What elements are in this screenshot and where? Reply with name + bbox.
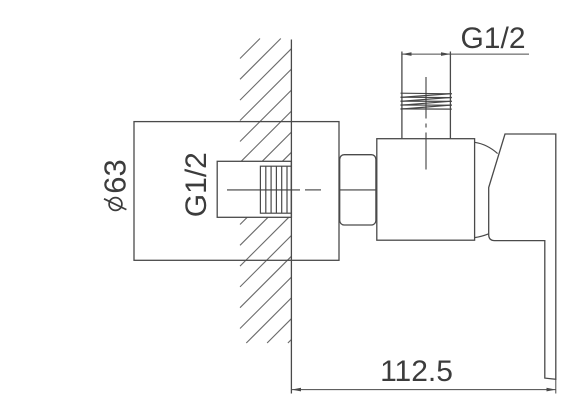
handle lever	[489, 134, 556, 379]
svg-text:G1/2: G1/2	[180, 152, 213, 217]
threaded box	[260, 166, 291, 213]
cartridge arc top	[475, 142, 498, 153]
svg-text:G1/2: G1/2	[460, 22, 525, 55]
cartridge arc bottom	[475, 234, 489, 238]
label o63 rotated	[98, 159, 133, 193]
valve body	[377, 139, 475, 241]
compression nut	[340, 155, 376, 225]
pipe threads	[401, 93, 452, 109]
label G1/2 rotated	[180, 152, 213, 217]
top pipe	[402, 52, 451, 139]
inlet tube G1/2	[217, 161, 291, 217]
dimension G1/2 top	[401, 53, 529, 55]
wall hatch section	[240, 39, 291, 344]
svg-text:112.5: 112.5	[380, 355, 453, 388]
horizontal center line	[227, 189, 377, 191]
flange body rect (o63)	[134, 122, 339, 261]
vertical center line	[425, 77, 427, 170]
wall face line	[290, 40, 292, 394]
diameter symbol	[104, 198, 126, 211]
dimension 112.5 bottom	[292, 379, 557, 393]
svg-text:63: 63	[98, 159, 133, 193]
